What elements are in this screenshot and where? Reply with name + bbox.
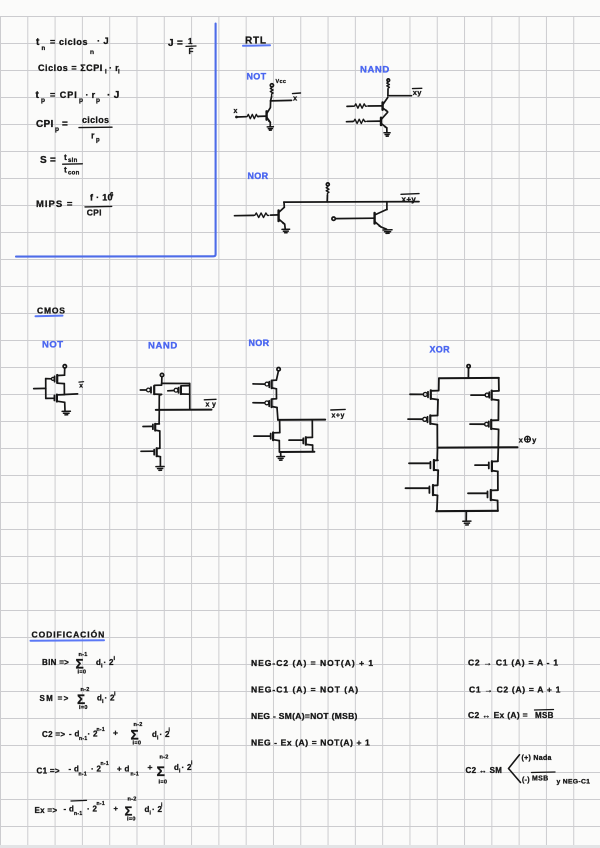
svg-text:x: x [234, 108, 238, 115]
Vdd terminal [160, 373, 163, 376]
svg-text:i: i [114, 691, 116, 697]
svg-text:i: i [161, 802, 163, 808]
wire PMOS drain to output node [63, 384, 65, 395]
svg-text:p: p [96, 138, 100, 144]
svg-text:S =: S = [40, 155, 56, 166]
svg-text:x y: x y [206, 402, 217, 409]
wire base 1 [368, 105, 382, 107]
svg-text:+: + [114, 804, 119, 813]
svg-text:x+y: x+y [332, 413, 345, 420]
transistor M1 (PMOS left) [155, 383, 162, 385]
svg-text:· J: · J [107, 90, 120, 101]
svg-text:CPI: CPI [87, 208, 102, 218]
wire left branch below output [436, 448, 438, 460]
svg-text:NEG - SM(A)=NOT (MSB): NEG - SM(A)=NOT (MSB) [251, 711, 358, 721]
wire input [237, 116, 247, 118]
svg-text:xy: xy [413, 88, 422, 97]
resistor RC [387, 82, 390, 90]
wire right branch down [189, 384, 191, 410]
svg-text:i=0: i=0 [79, 705, 88, 711]
svg-text:NEG-C1 (A) = NOT (A): NEG-C1 (A) = NOT (A) [251, 684, 359, 694]
svg-text:+: + [113, 727, 118, 737]
svg-text:1: 1 [188, 37, 193, 46]
svg-text:= ciclos: = ciclos [50, 37, 88, 47]
svg-text:J =: J = [168, 38, 183, 49]
svg-text:NOT: NOT [42, 340, 64, 351]
wire collector rail [284, 201, 419, 204]
svg-text:BIN =>: BIN => [42, 658, 69, 667]
wire M5 to M6 [437, 470, 440, 485]
svg-text:y NEG-C1: y NEG-C1 [557, 779, 591, 786]
svg-text:i: i [105, 70, 107, 76]
node output label x+y bar [331, 408, 345, 411]
svg-text:x: x [519, 436, 524, 445]
svg-text:NEG - Ex (A) = NOT(A) + 1: NEG - Ex (A) = NOT(A) + 1 [251, 738, 370, 748]
wire top rail [162, 382, 190, 384]
wire M7 to M8 [497, 471, 499, 490]
ground (right) [383, 230, 392, 234]
svg-text:t: t [64, 152, 67, 162]
wire M2 drain to output node [276, 408, 279, 420]
svg-text:· J: · J [97, 36, 109, 47]
svg-text:C2 ↔ Ex (A) =: C2 ↔ Ex (A) = [468, 710, 528, 720]
svg-text:i: i [169, 728, 171, 734]
svg-text:· 2: · 2 [104, 658, 114, 667]
wire M1 to M2 [275, 389, 277, 399]
svg-text:n-1: n-1 [79, 771, 87, 777]
svg-text:sin: sin [68, 158, 78, 164]
wire input 1 [235, 214, 254, 216]
wire right branch top [498, 378, 500, 391]
svg-text:n-2: n-2 [160, 754, 169, 760]
wire M4 drain to output rail [497, 429, 499, 447]
node output label x-bar [293, 92, 301, 95]
svg-text:i=0: i=0 [127, 817, 136, 823]
wire output [271, 99, 292, 102]
wire output rail [278, 419, 325, 421]
transistor Q2 (right NPN) [373, 213, 375, 224]
svg-text:(-): (-) [522, 777, 530, 784]
wire Vdd to rail [161, 377, 163, 384]
svg-text:n-1: n-1 [101, 761, 109, 767]
wire bottom rail [280, 451, 315, 453]
svg-text:i=0: i=0 [78, 669, 87, 675]
wire input [34, 387, 46, 389]
svg-text:p: p [79, 97, 83, 104]
wire input 1 [347, 105, 353, 107]
svg-text:NEG-C2 (A) = NOT(A) + 1: NEG-C2 (A) = NOT(A) + 1 [251, 658, 374, 668]
Vcc terminal [270, 84, 273, 87]
wire collector rail [387, 90, 389, 96]
wire emitter 2 [381, 227, 387, 229]
transistor M6 (NMOS left 2) [433, 484, 437, 486]
ground [463, 521, 471, 525]
svg-text:C1 =>: C1 => [37, 767, 60, 776]
wire M3 to M4 [159, 431, 161, 448]
svg-text:i: i [191, 760, 193, 766]
wire output [64, 393, 77, 396]
svg-text:MSB: MSB [532, 775, 548, 782]
svg-text:NOT: NOT [247, 72, 267, 82]
transistor M5 (NMOS left 1) [434, 459, 438, 461]
svg-text:p: p [96, 97, 100, 104]
svg-text:MSB: MSB [535, 711, 554, 720]
ground [384, 133, 390, 137]
svg-text:t: t [64, 165, 67, 175]
wire node to NMOS1 [158, 410, 160, 424]
resistor RB (base) [246, 114, 258, 118]
svg-text:Σ: Σ [157, 763, 166, 779]
wire emitter to ground [269, 122, 271, 126]
svg-text:C2 ↔ SM: C2 ↔ SM [466, 766, 503, 775]
transistor M3 (PMOS right 1) [492, 390, 499, 392]
svg-text:n-1: n-1 [97, 727, 105, 733]
wire M1 to M2 [437, 400, 439, 416]
Vcc terminal [387, 79, 390, 82]
Vdd terminal [63, 365, 66, 368]
svg-text:n-1: n-1 [79, 736, 87, 742]
wire Vdd to top rail [467, 368, 469, 378]
wire Vdd to PMOS source [64, 368, 66, 375]
svg-text:C2 =>: C2 => [42, 730, 65, 739]
wire input 2 [335, 217, 374, 219]
wire PMOS drains to output rail [159, 394, 161, 409]
svg-text:SM =>: SM => [40, 694, 70, 703]
resistor RC (collector pull-up) [270, 87, 273, 97]
transistor Q1 (top NPN) [381, 102, 383, 109]
svg-text:n-1: n-1 [97, 801, 105, 807]
svg-text:i=0: i=0 [159, 780, 168, 786]
svg-text:x: x [293, 94, 298, 103]
transistor M7 (NMOS right 1) [493, 460, 498, 462]
svg-text:n-2: n-2 [128, 797, 137, 803]
svg-text:t: t [36, 37, 40, 48]
svg-text:· r: · r [86, 90, 96, 100]
svg-text:con: con [68, 171, 80, 177]
transistor Q2 (bottom NPN) [380, 118, 382, 125]
wire output rail [437, 446, 517, 448]
svg-text:n-1: n-1 [131, 771, 139, 777]
resistor RB1 [353, 104, 366, 108]
transistor M3 (NMOS left) [274, 432, 280, 434]
svg-text:i: i [118, 70, 120, 76]
wire node to NMOS1 [279, 420, 281, 433]
svg-text:y: y [532, 436, 537, 445]
wire M4 to ground [159, 457, 161, 467]
svg-text:6: 6 [110, 193, 114, 199]
wire base 1 [271, 214, 279, 216]
svg-text:n: n [90, 49, 94, 56]
svg-text:C2 → C1 (A) = A - 1: C2 → C1 (A) = A - 1 [468, 657, 559, 667]
wire M2 drain to output rail [436, 425, 438, 448]
wire output node to NMOS2 (right) [311, 420, 313, 438]
svg-text:n-1: n-1 [74, 811, 82, 817]
wire emitter to ground [386, 128, 388, 133]
wire collector to node [271, 97, 272, 101]
svg-text:= CPI: = CPI [50, 90, 78, 100]
svg-text:r: r [91, 131, 95, 141]
wire NMOS source to ground [64, 402, 66, 411]
svg-text:p: p [55, 126, 59, 133]
wire top rail [439, 377, 499, 379]
svg-text:NOR: NOR [249, 338, 270, 348]
svg-text:=: = [62, 119, 68, 130]
resistor RC [326, 186, 329, 196]
resistor RB2 [353, 119, 366, 123]
wire left collector drop [283, 202, 285, 207]
blue L-shaped border around formula box [16, 24, 216, 257]
wire M4 to bottom rail [312, 445, 314, 452]
ground [156, 467, 164, 471]
svg-text:Vcc: Vcc [276, 79, 287, 85]
svg-text:Ex =>: Ex => [35, 806, 58, 815]
svg-text:Ciclos = ΣCPI: Ciclos = ΣCPI [38, 63, 103, 73]
ground [62, 411, 70, 415]
wire base lead [259, 115, 267, 117]
wire Vdd to M1 [276, 371, 278, 380]
wire base 2 [367, 120, 381, 122]
svg-text:NAND: NAND [360, 65, 390, 76]
wire output rail [156, 409, 212, 411]
wire right branch below output [497, 448, 499, 462]
svg-text:CODIFICACIÓN: CODIFICACIÓN [32, 629, 106, 640]
transistor M2 (NMOS) [46, 397, 54, 399]
wire to ground [465, 511, 467, 521]
Vdd terminal [467, 365, 470, 368]
svg-text:MIPS =: MIPS = [36, 199, 73, 210]
node output label xy-bar [413, 87, 422, 89]
wire output [388, 95, 412, 97]
Vdd terminal [277, 368, 280, 371]
Vcc terminal [326, 183, 329, 186]
wire M3 to M4 [497, 400, 499, 420]
ground (left) [282, 229, 290, 233]
node collector junction [270, 100, 272, 102]
wire right collector drop [386, 202, 388, 210]
wire bottom rail [436, 510, 498, 513]
wire emitter 1 [284, 224, 287, 229]
svg-text:- d: - d [64, 805, 75, 814]
node input 2 terminal [332, 217, 335, 220]
node output label x+y bar [401, 193, 419, 196]
svg-text:+ d: + d [117, 765, 130, 774]
transistor M2 (PMOS bottom) [272, 398, 276, 400]
transistor M8 (NMOS right 2) [492, 489, 498, 491]
svg-text:(+) Nada: (+) Nada [522, 755, 552, 762]
transistor M1 (PMOS top) [272, 379, 276, 381]
transistor M4 (NMOS bottom) [157, 447, 160, 449]
wire to ground [280, 452, 282, 456]
transistor M2 (PMOS left 2) [431, 415, 438, 417]
wire M8 to bottom rail [497, 501, 499, 512]
transistor M1 (PMOS left 1) [432, 390, 439, 392]
transistor M4 (PMOS right 2) [492, 419, 498, 421]
svg-text:x: x [79, 382, 83, 389]
transistor M1 (PMOS) [58, 374, 65, 376]
transistor Q1 (left NPN) [277, 210, 279, 221]
wire M3 to bottom rail [278, 441, 280, 452]
svg-text:+: + [148, 762, 153, 772]
svg-text:XOR: XOR [430, 345, 451, 355]
svg-text:x+y: x+y [402, 195, 417, 204]
ground [267, 127, 273, 130]
wire left branch top [438, 378, 440, 390]
node output label xy-bar [204, 398, 216, 401]
wire input 2 [347, 121, 353, 123]
wire input rail [45, 379, 47, 399]
transistor M4 (NMOS right) [307, 436, 313, 438]
transistor Q1 (NPN) [265, 111, 267, 119]
svg-text:ciclos: ciclos [82, 115, 109, 125]
svg-text:p: p [41, 97, 45, 104]
svg-text:NAND: NAND [148, 341, 178, 352]
svg-text:F: F [189, 47, 194, 56]
svg-text:i=0: i=0 [133, 741, 142, 747]
svg-text:C1 → C2 (A) = A + 1: C1 → C2 (A) = A + 1 [469, 684, 561, 694]
node output label x-bar [79, 381, 84, 383]
ground [277, 457, 285, 461]
wire to rail [326, 196, 328, 202]
transistor M2 (PMOS right) [181, 385, 189, 387]
wire M6 to bottom rail [436, 495, 439, 511]
transistor M3 (NMOS top) [155, 423, 159, 425]
svg-text:CPI: CPI [36, 119, 54, 130]
svg-text:NOR: NOR [248, 171, 269, 181]
svg-text:n: n [42, 46, 46, 52]
svg-text:t: t [36, 90, 40, 101]
resistor RB1 [254, 213, 269, 218]
svg-text:CMOS: CMOS [37, 306, 66, 316]
svg-text:i: i [114, 656, 116, 662]
